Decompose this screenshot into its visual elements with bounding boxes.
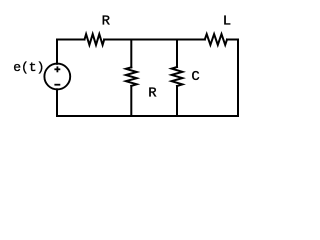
svg-text:L: L [223, 14, 231, 30]
svg-text:R: R [102, 14, 111, 30]
svg-text:e(t): e(t) [13, 60, 44, 75]
svg-text:C: C [191, 69, 199, 85]
svg-text:R: R [148, 86, 157, 102]
